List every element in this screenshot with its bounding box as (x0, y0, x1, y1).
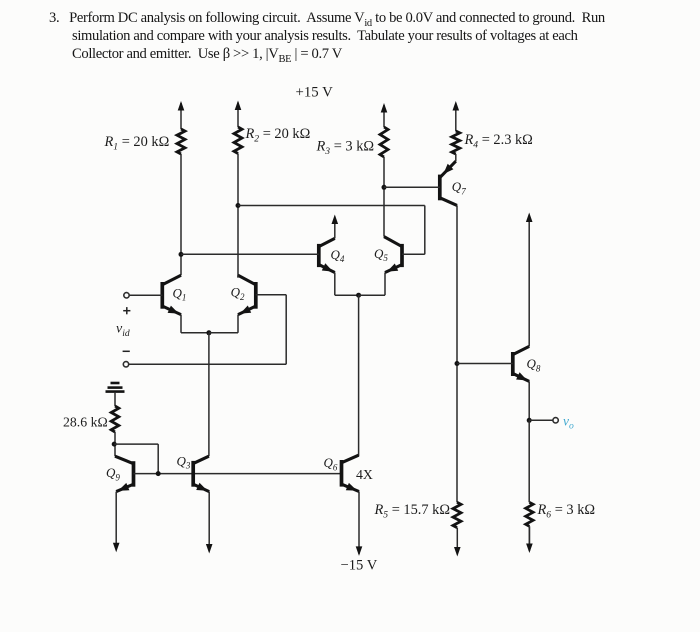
svg-text:R1 = 20 kΩ: R1 = 20 kΩ (104, 134, 170, 152)
svg-text:Q9: Q9 (106, 465, 120, 482)
svg-text:Q5: Q5 (374, 246, 388, 263)
svg-text:Q4: Q4 (331, 247, 345, 264)
svg-text:Q8: Q8 (527, 356, 541, 373)
svg-text:Q2: Q2 (231, 285, 245, 302)
svg-text:R5 = 15.7 kΩ: R5 = 15.7 kΩ (374, 502, 451, 520)
svg-text:Q3: Q3 (177, 453, 191, 470)
svg-text:+15 V: +15 V (296, 85, 334, 101)
svg-text:vo: vo (563, 414, 574, 432)
svg-text:4X: 4X (356, 467, 373, 482)
svg-text:vid: vid (116, 322, 130, 339)
svg-text:R4 = 2.3 kΩ: R4 = 2.3 kΩ (464, 132, 533, 150)
svg-text:28.6 kΩ: 28.6 kΩ (63, 415, 108, 430)
svg-text:R6 = 3 kΩ: R6 = 3 kΩ (537, 502, 596, 520)
svg-text:Q7: Q7 (452, 179, 466, 196)
svg-text:R3 = 3 kΩ: R3 = 3 kΩ (316, 139, 375, 157)
svg-text:Q6: Q6 (324, 455, 338, 472)
svg-text:R2 = 20 kΩ: R2 = 20 kΩ (245, 126, 311, 144)
svg-text:Q1: Q1 (173, 285, 187, 302)
svg-text:−15 V: −15 V (341, 558, 378, 574)
